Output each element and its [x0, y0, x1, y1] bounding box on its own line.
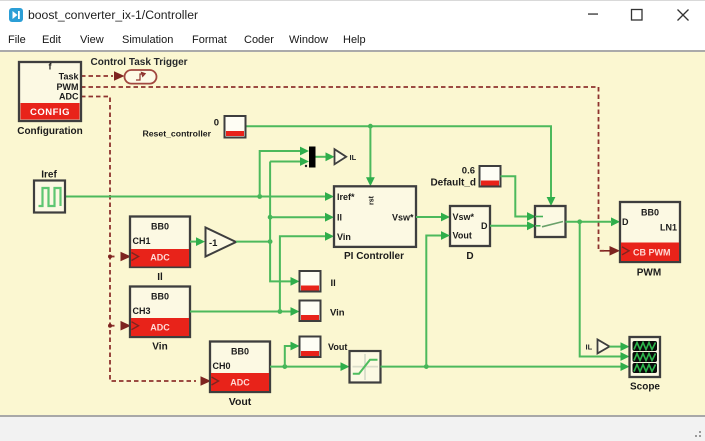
junction gain/bus	[268, 239, 273, 244]
wire: PWM dashed from Configuration to PWM block	[81, 87, 604, 251]
svg-text:rst: rst	[369, 195, 376, 205]
wire: bus to mux input 2	[270, 161, 301, 163]
maximize	[632, 10, 643, 21]
from tag IL (triangle)	[598, 340, 610, 354]
wire: Default_d to switch input 1	[501, 176, 529, 216]
svg-text:0.6: 0.6	[462, 166, 475, 177]
ADC dashed branch to CH1	[110, 256, 116, 258]
junction on ADC dashed line at CH1	[108, 255, 112, 259]
svg-text:CONFIG: CONFIG	[30, 107, 70, 118]
wire: Il vertical bus	[270, 162, 291, 282]
wire: Reset_controller to switch top and PI rst	[246, 126, 552, 198]
svg-text:Iref: Iref	[41, 170, 57, 181]
arrow into D Vsw*	[441, 213, 450, 222]
wire: bus to PI Il port	[270, 216, 326, 218]
svg-text:IL: IL	[586, 343, 593, 352]
wire: Task dashed from Configuration to trigger oval	[81, 75, 113, 77]
arrow into switch input 2	[527, 221, 536, 230]
svg-text:CH3: CH3	[133, 306, 151, 316]
svg-text:Il: Il	[157, 272, 163, 283]
svg-text:Default_d: Default_d	[430, 178, 476, 189]
control task trigger oval	[125, 70, 157, 84]
ADC dashed branch to CH3	[110, 325, 116, 327]
wire: branch down to PI rst	[369, 126, 371, 178]
svg-text:BB0: BB0	[151, 292, 169, 302]
block: Iref pulse generator	[34, 181, 65, 213]
arrow into mux input 2	[300, 157, 309, 166]
block: Configuration (CONFIG)	[19, 62, 81, 122]
wire: PI Vsw* to D block	[416, 216, 442, 218]
wire: branch down to scope input 2	[580, 222, 622, 357]
svg-text:CH0: CH0	[213, 361, 231, 371]
arrow into scope input 3	[621, 362, 630, 371]
svg-text:ADC: ADC	[150, 323, 170, 333]
arrow into scope input 1	[621, 342, 630, 351]
junction Vin wire	[278, 309, 283, 314]
block: saturation	[350, 351, 381, 383]
svg-text:ADC: ADC	[59, 92, 79, 102]
svg-text:Iref*: Iref*	[337, 192, 355, 202]
status bar	[0, 415, 705, 441]
wire: Iref to PI Iref*	[65, 196, 326, 198]
wire: CH0 ADC to saturation	[270, 366, 342, 368]
svg-text:Configuration: Configuration	[17, 126, 83, 137]
svg-text:PWM: PWM	[57, 82, 79, 92]
svg-text:LN1: LN1	[660, 223, 677, 233]
arrow into IL goto	[326, 152, 335, 161]
svg-text:Il: Il	[331, 278, 336, 289]
arrow into gain	[196, 237, 205, 246]
menu bar	[0, 30, 705, 51]
svg-text:D: D	[481, 221, 488, 231]
svg-text:Task: Task	[59, 72, 80, 82]
svg-text:BB0: BB0	[151, 222, 169, 232]
junction Vout wire	[282, 364, 287, 369]
wire: mux to IL goto tag	[316, 156, 327, 158]
block: ADC CH3 (Vin)	[130, 287, 190, 338]
junction on reset wire	[368, 124, 373, 129]
arrow into trigger oval	[114, 71, 125, 81]
svg-text:Vout: Vout	[229, 396, 252, 408]
svg-text:BB0: BB0	[231, 347, 249, 357]
wire: CH3 ADC to Vin indicator and PI Vin	[190, 311, 292, 313]
arrow into switch top	[547, 197, 556, 206]
arrow into CH0 ADC	[201, 376, 212, 386]
svg-text:Vsw*: Vsw*	[453, 212, 475, 222]
block: switch	[535, 206, 566, 237]
close	[678, 10, 689, 21]
wire: branch up to D Vout	[426, 236, 442, 367]
arrow into PI Vin	[325, 232, 334, 241]
svg-text:Reset_controller: Reset_controller	[142, 129, 211, 139]
block: PI Controller	[334, 186, 416, 247]
minimize	[588, 13, 598, 14]
arrow into CB PWM	[610, 246, 621, 256]
title bar	[0, 0, 705, 30]
wire: branch up to Vout indicator	[285, 346, 292, 367]
arrow into switch input 1	[527, 212, 536, 221]
arrow into PI Il	[325, 213, 334, 222]
block: Default_d constant	[480, 166, 501, 187]
arrow into PI Iref*	[325, 192, 334, 201]
svg-text:Vin: Vin	[152, 342, 167, 353]
arrow into Vin indicator	[291, 307, 300, 316]
block: Vin display	[300, 301, 321, 322]
junction on ADC dashed line at CH3	[108, 324, 112, 328]
wire: ADC dashed from Configuration down to ADC blocks	[81, 97, 196, 382]
svg-text:PWM: PWM	[637, 268, 661, 279]
arrow into Vout indicator	[291, 342, 300, 351]
svg-text:ADC: ADC	[150, 253, 170, 263]
arrow into scope input 2	[621, 352, 630, 361]
block: Il display	[300, 271, 321, 292]
svg-text:PI Controller: PI Controller	[344, 251, 404, 262]
wire: Vin branch up to PI Vin	[280, 236, 326, 311]
svg-text:Vsw*: Vsw*	[392, 213, 414, 223]
arrow into saturation	[341, 362, 350, 371]
wire: saturation output to scope input 3	[381, 366, 622, 368]
wire: switch output to PWM D	[566, 221, 611, 223]
block: Vout display	[300, 337, 321, 358]
svg-text:D: D	[466, 251, 473, 262]
svg-text:D: D	[622, 217, 629, 227]
svg-text:CH1: CH1	[133, 236, 151, 246]
svg-text:Scope: Scope	[630, 382, 660, 393]
svg-text:Il: Il	[337, 213, 342, 223]
block: Reset_controller constant 0	[225, 116, 246, 138]
junction on saturation output	[424, 364, 429, 369]
app icon	[9, 8, 23, 22]
block: PWM	[620, 202, 680, 262]
wire: CH1 ADC to gain	[190, 241, 197, 243]
block: Scope	[630, 337, 661, 377]
wire: gain output to Il bus	[236, 241, 270, 243]
block: D (duty cycle calc)	[450, 206, 490, 246]
wire: Iref branch up to mux input 1	[260, 151, 301, 197]
gain -1	[206, 228, 237, 257]
svg-text:Vin: Vin	[330, 308, 345, 319]
wire: IL from tag to scope input 1	[610, 346, 622, 348]
arrow into mux input 1	[300, 147, 309, 156]
arrow into PWM D	[611, 217, 620, 226]
svg-text:-1: -1	[209, 238, 218, 249]
junction on switch output	[577, 219, 582, 224]
svg-text:Vout: Vout	[328, 342, 347, 352]
wire: D output to switch input 2	[490, 225, 528, 227]
arrow into Il indicator	[291, 277, 300, 286]
arrow into D Vout	[441, 231, 450, 240]
mux	[305, 147, 316, 168]
svg-text:0: 0	[214, 118, 219, 129]
block: ADC CH0 (Vout)	[210, 342, 270, 393]
junction Il bus to PI Il	[268, 215, 273, 220]
svg-text:Vout: Vout	[453, 231, 472, 241]
svg-text:IL: IL	[350, 153, 357, 162]
junction on Iref wire	[257, 194, 262, 199]
svg-text:ADC: ADC	[230, 378, 250, 388]
svg-text:CB PWM: CB PWM	[633, 248, 671, 258]
block: ADC CH1 (Il)	[130, 217, 190, 268]
svg-text:BB0: BB0	[641, 208, 659, 218]
arrow into PI rst	[366, 177, 375, 186]
svg-text:Vin: Vin	[337, 232, 351, 242]
svg-text:Control Task Trigger: Control Task Trigger	[91, 57, 188, 68]
goto tag IL (triangle)	[335, 149, 347, 164]
